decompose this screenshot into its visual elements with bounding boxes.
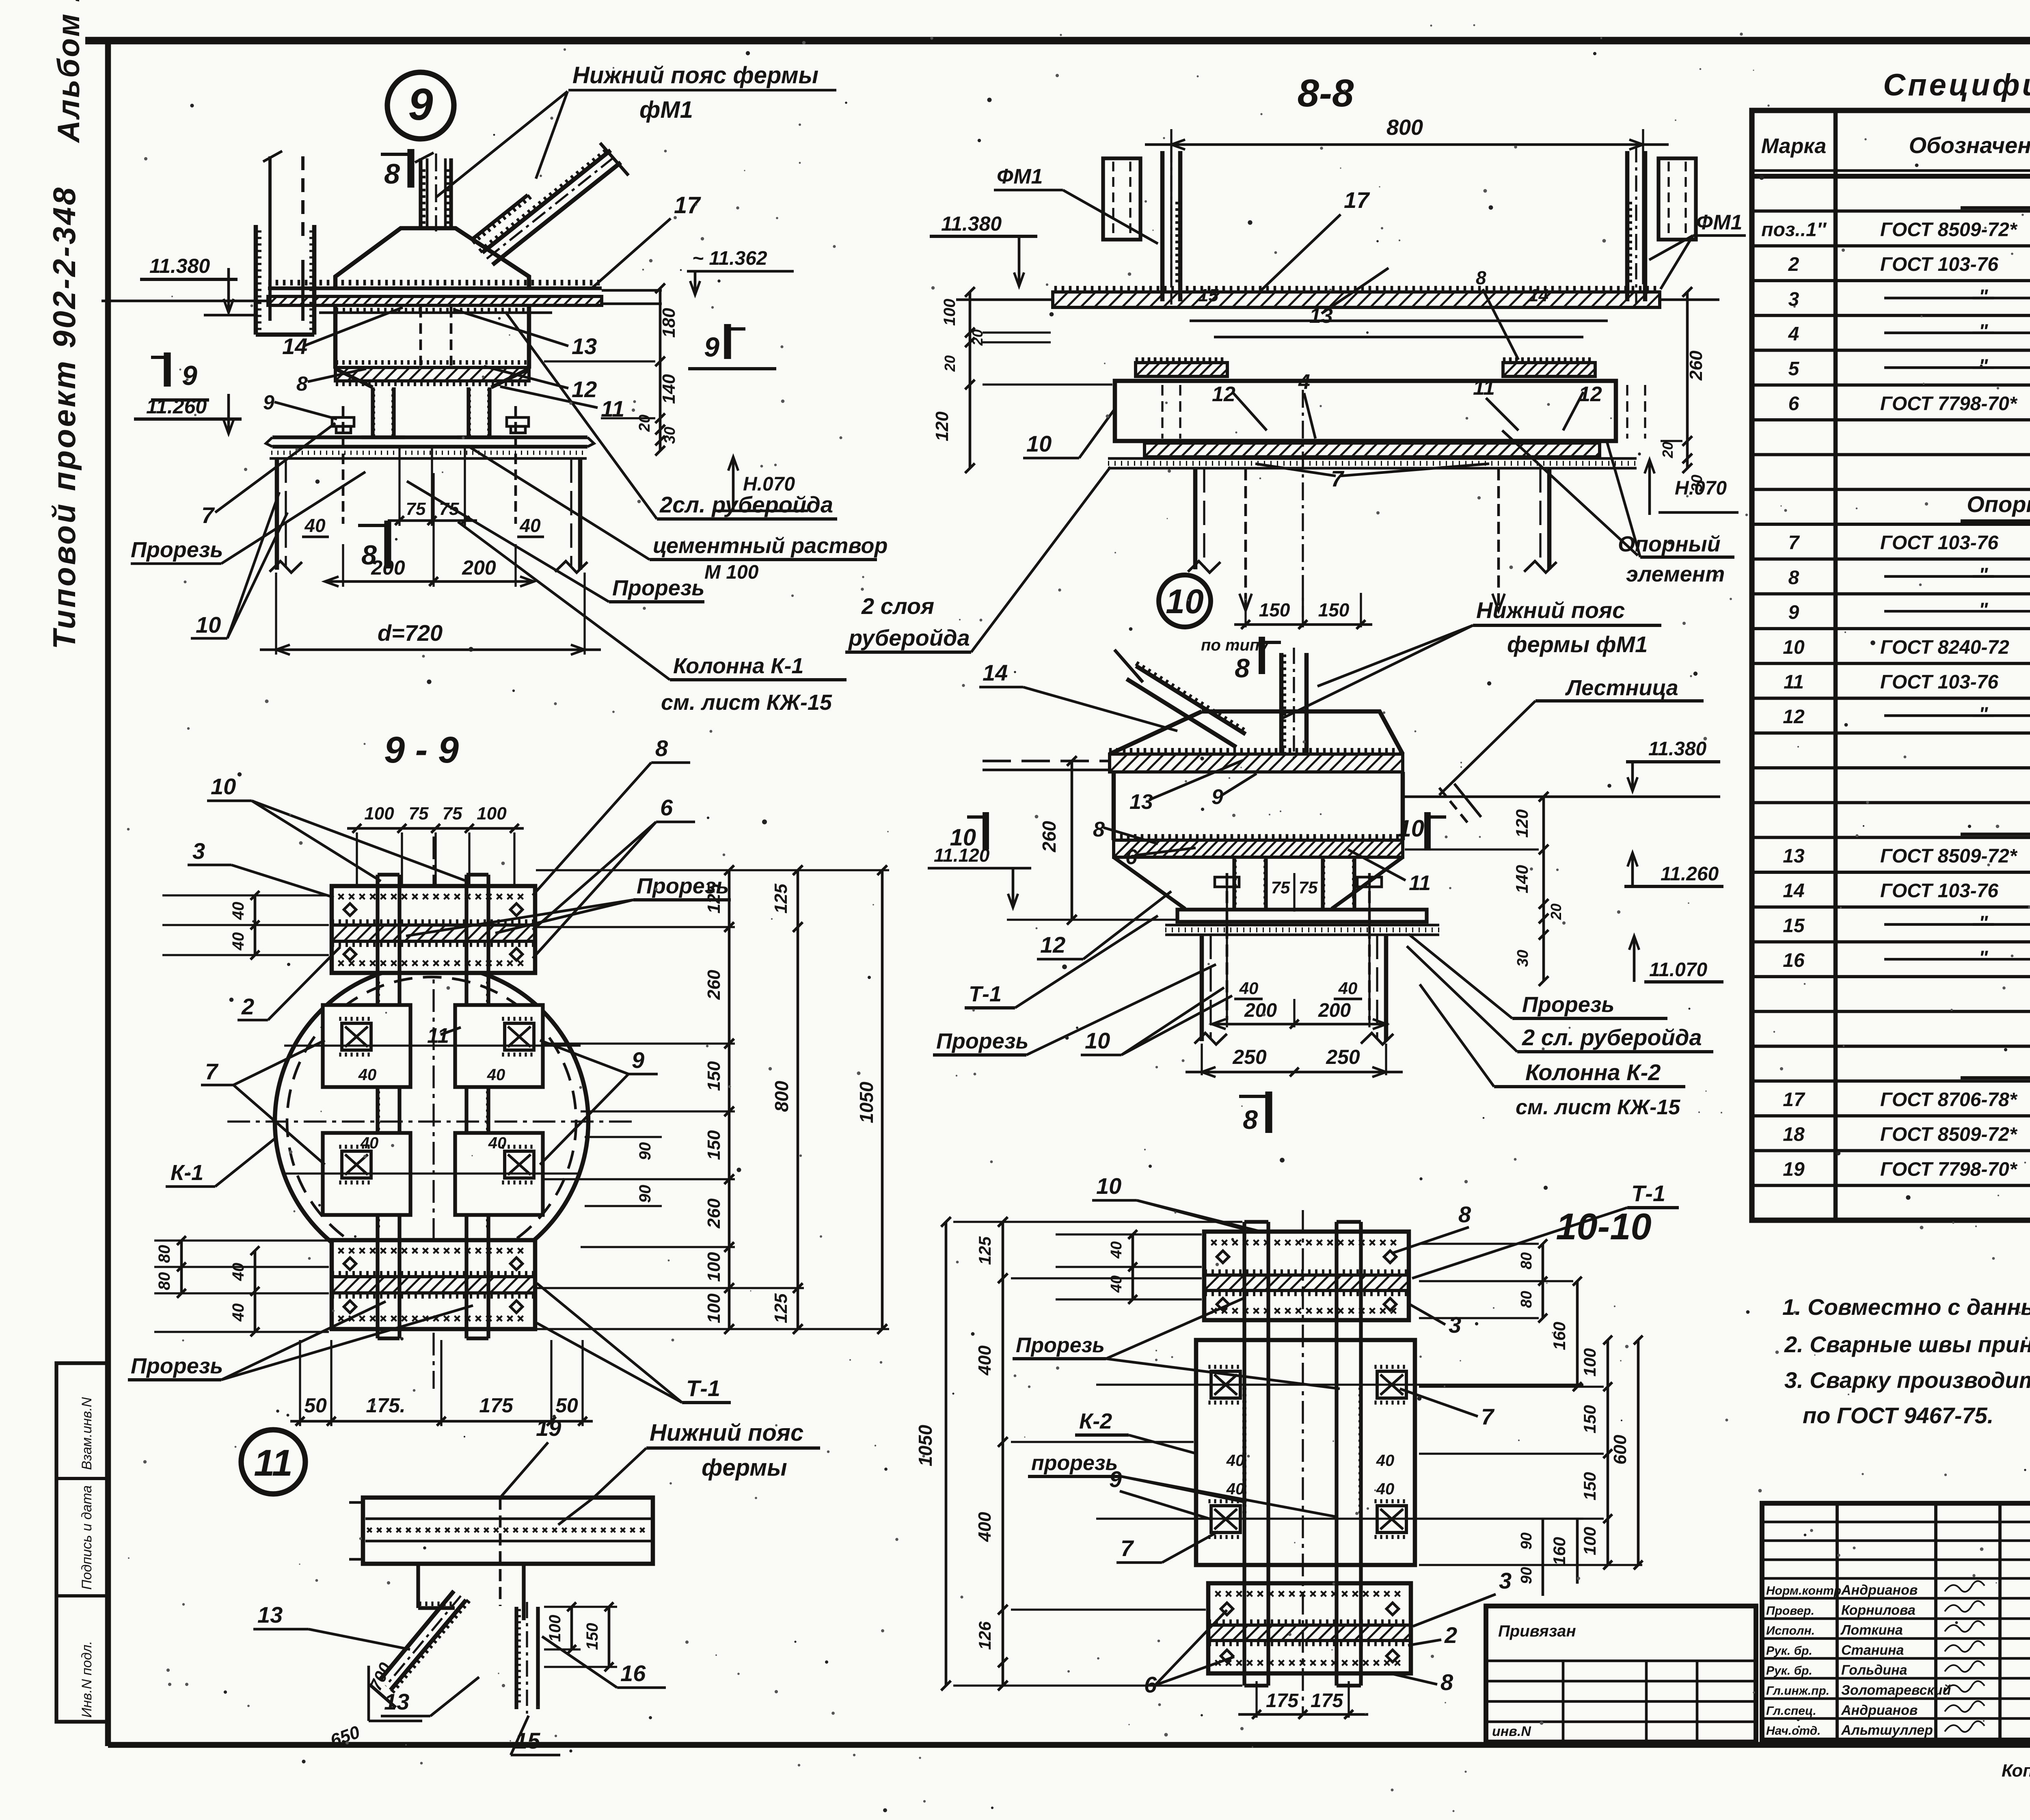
diagonal brace (11)	[391, 1600, 466, 1690]
svg-text:8: 8	[1476, 267, 1486, 288]
channel pair left 9-9	[376, 875, 379, 1338]
svg-text:150: 150	[1580, 1405, 1599, 1433]
svg-text:11: 11	[427, 1024, 449, 1048]
svg-text:8: 8	[1243, 1105, 1258, 1135]
svg-text:фМ1: фМ1	[639, 97, 693, 123]
привязан box	[1486, 1606, 1756, 1742]
40 marks top left (10-10)	[1132, 1234, 1134, 1299]
svg-text:Т-1: Т-1	[1631, 1180, 1665, 1206]
svg-text:8: 8	[296, 372, 308, 395]
svg-text:ГОСТ 103-76: ГОСТ 103-76	[1880, 672, 1998, 693]
svg-text:14: 14	[1529, 285, 1548, 305]
section flag 8 top	[407, 149, 414, 188]
svg-text:1. Совместно с данным: 1. Совместно с данным см. л.л. КЖ-19,20.	[1782, 1294, 2030, 1320]
svg-text:100: 100	[941, 299, 959, 326]
middle plates with bolt boxes	[323, 1005, 410, 1087]
svg-text:": "	[1979, 947, 1989, 968]
svg-text:80: 80	[1518, 1291, 1535, 1308]
svg-text:ГОСТ 7798-70*: ГОСТ 7798-70*	[1880, 393, 2018, 415]
scan speckles	[1700, 68, 1702, 70]
top gusset plate 9-9	[332, 886, 535, 973]
svg-text:40: 40	[229, 932, 247, 951]
svg-text:8: 8	[1458, 1202, 1471, 1227]
dim 150 150	[1244, 593, 1246, 627]
anchor bolt heads	[332, 417, 354, 426]
svg-text:40: 40	[1108, 1275, 1125, 1293]
svg-text:17: 17	[1344, 187, 1370, 213]
left tower	[1160, 151, 1165, 301]
cement mortar band	[270, 457, 587, 460]
ruberoid band (10)	[1114, 834, 1397, 839]
svg-text:9: 9	[1109, 1466, 1122, 1492]
svg-text:20: 20	[942, 355, 958, 372]
svg-text:2: 2	[1444, 1622, 1457, 1648]
dims top 100 75 75 100	[356, 832, 358, 885]
svg-text:40: 40	[519, 515, 541, 536]
dim 200 200 (10)	[1226, 885, 1228, 1027]
svg-text:75: 75	[409, 804, 429, 824]
svg-text:40: 40	[1376, 1480, 1395, 1498]
bottom band	[1145, 443, 1600, 457]
svg-text:15: 15	[1199, 285, 1218, 305]
svg-text:Опорный элемент Т-1: Опорный элемент Т-1	[1967, 491, 2030, 517]
center vertical member	[419, 158, 422, 228]
svg-text:11.380: 11.380	[1648, 738, 1707, 760]
svg-text:Гл.спец.: Гл.спец.	[1766, 1704, 1816, 1718]
svg-text:Норм.контр.: Норм.контр.	[1766, 1584, 1844, 1597]
support box	[1115, 381, 1616, 441]
svg-text:10: 10	[196, 612, 221, 638]
svg-text:250: 250	[1232, 1046, 1267, 1068]
dim d=720	[275, 573, 277, 655]
support pads	[1137, 357, 1222, 362]
svg-text:12: 12	[1212, 383, 1235, 406]
svg-text:9: 9	[1788, 602, 1799, 623]
svg-text:11: 11	[1473, 376, 1495, 400]
svg-text:": "	[1979, 703, 1989, 725]
svg-text:30: 30	[661, 427, 678, 444]
svg-text:Нижний пояс: Нижний пояс	[1476, 597, 1625, 623]
base plate	[272, 435, 587, 439]
inner deck lines	[1190, 320, 1608, 322]
svg-text:2. Сварные швы приняты: 2. Сварные швы приняты hш = 6мм	[1784, 1331, 2030, 1357]
cement band 8-8	[1108, 457, 1637, 460]
section flags 10-10 cut	[983, 812, 989, 849]
svg-text:75: 75	[1271, 878, 1290, 897]
svg-text:175: 175	[1311, 1690, 1343, 1712]
svg-text:3: 3	[192, 838, 205, 864]
svg-text:12: 12	[1783, 706, 1805, 728]
svg-text:100: 100	[364, 804, 394, 824]
svg-text:80: 80	[155, 1245, 173, 1263]
svg-text:15: 15	[1783, 915, 1805, 936]
svg-text:140: 140	[659, 374, 679, 404]
ref line right (10)	[1404, 795, 1720, 798]
svg-text:Прорезь: Прорезь	[612, 576, 704, 600]
svg-text:260: 260	[704, 1198, 724, 1229]
svg-text:90: 90	[1518, 1533, 1535, 1550]
left chain 8-8	[969, 292, 972, 468]
svg-text:200: 200	[462, 556, 496, 579]
svg-text:7: 7	[1121, 1535, 1134, 1561]
svg-text:120: 120	[1512, 809, 1531, 838]
svg-text:Привязан: Привязан	[1498, 1622, 1576, 1640]
svg-text:Прорезь: Прорезь	[637, 874, 729, 898]
svg-text:40: 40	[229, 1303, 247, 1322]
svg-text:ГОСТ 103-76: ГОСТ 103-76	[1880, 880, 1998, 902]
svg-text:40: 40	[304, 515, 326, 536]
svg-text:9 - 9: 9 - 9	[384, 729, 459, 771]
svg-text:Андрианов: Андрианов	[1841, 1582, 1918, 1598]
svg-text:ГОСТ 103-76: ГОСТ 103-76	[1880, 532, 1998, 554]
svg-text:Провер.: Провер.	[1766, 1604, 1814, 1617]
svg-text:2: 2	[241, 994, 254, 1019]
svg-text:10: 10	[1085, 1028, 1110, 1053]
centerlines 10-10	[1302, 1210, 1304, 1714]
svg-text:175: 175	[1266, 1690, 1299, 1712]
lower chord band	[337, 360, 525, 365]
svg-text:19: 19	[1783, 1159, 1805, 1180]
svg-text:20: 20	[636, 415, 653, 432]
svg-text:100: 100	[1580, 1348, 1599, 1377]
concrete column K-1	[275, 458, 279, 570]
dims bottom 50 175 175 50	[299, 1340, 301, 1426]
svg-text:40: 40	[229, 902, 247, 921]
svg-text:14: 14	[983, 660, 1008, 685]
svg-text:50: 50	[304, 1394, 327, 1417]
svg-text:Типовой проект 902-2-348: Типовой проект 902-2-348	[46, 186, 82, 649]
section flag 9 right	[724, 324, 731, 359]
svg-text:ГОСТ 8706-78*: ГОСТ 8706-78*	[1880, 1089, 2018, 1111]
svg-text:11: 11	[1784, 672, 1804, 693]
svg-text:ГОСТ 8509-72*: ГОСТ 8509-72*	[1880, 845, 2018, 867]
lower structure (10)	[1114, 857, 1185, 909]
svg-text:Подпись и дата: Подпись и дата	[79, 1485, 95, 1590]
svg-text:150: 150	[1318, 599, 1350, 620]
svg-text:d=720: d=720	[378, 620, 443, 646]
svg-text:Нижний пояс: Нижний пояс	[650, 1420, 803, 1446]
svg-text:Копир. Лаврухина: Копир. Лаврухина	[2002, 1761, 2030, 1781]
svg-text:Прорезь: Прорезь	[1522, 992, 1614, 1017]
svg-text:Прорезь: Прорезь	[131, 1354, 223, 1378]
gusset body top	[335, 228, 529, 288]
svg-text:100: 100	[1580, 1527, 1599, 1555]
bolts (10)	[1226, 873, 1229, 1020]
svg-text:руберойда: руберойда	[848, 625, 970, 651]
svg-text:11: 11	[601, 396, 624, 421]
svg-text:3. Сварку производить эле: 3. Сварку производить электродами Э42А	[1784, 1367, 2030, 1393]
dim 250 250 (10)	[1201, 1044, 1203, 1075]
dim 75 75	[398, 447, 400, 526]
svg-text:1050: 1050	[856, 1081, 877, 1123]
svg-text:6: 6	[660, 795, 673, 820]
svg-text:8: 8	[1093, 818, 1105, 841]
beam (11)	[363, 1498, 653, 1564]
diagonal member	[482, 150, 611, 253]
svg-text:К-2: К-2	[1079, 1409, 1112, 1433]
channel pair right 9-9	[464, 875, 468, 1338]
body box (10)	[1112, 772, 1116, 840]
svg-text:8-8: 8-8	[1298, 71, 1354, 115]
svg-text:126: 126	[975, 1621, 994, 1650]
margin stamp column	[56, 1363, 108, 1722]
svg-text:6: 6	[1788, 393, 1799, 415]
svg-text:200: 200	[371, 556, 405, 579]
svg-text:50: 50	[555, 1394, 578, 1417]
svg-text:12: 12	[572, 376, 597, 402]
svg-text:30: 30	[1514, 950, 1531, 967]
svg-text:150: 150	[1259, 599, 1290, 620]
detail 11 bubble	[241, 1430, 305, 1494]
svg-text:10: 10	[1096, 1173, 1121, 1199]
svg-text:80: 80	[1518, 1252, 1535, 1269]
right tower	[1625, 151, 1630, 301]
svg-text:17: 17	[1783, 1089, 1805, 1111]
svg-text:400: 400	[975, 1345, 995, 1376]
concrete column 8-8	[1193, 468, 1198, 569]
spec table grid	[1752, 110, 2030, 1220]
svg-text:40: 40	[358, 1066, 377, 1084]
svg-text:100: 100	[477, 804, 507, 824]
svg-text:Лоткина: Лоткина	[1840, 1623, 1903, 1638]
svg-text:Колонна К-1: Колонна К-1	[673, 654, 803, 678]
svg-text:11: 11	[1409, 871, 1431, 895]
svg-text:260: 260	[1039, 821, 1060, 852]
svg-text:9: 9	[1212, 785, 1223, 809]
left chains 10-10	[945, 1222, 948, 1686]
svg-text:17: 17	[674, 192, 701, 218]
svg-text:прорезь: прорезь	[1031, 1451, 1118, 1475]
right chains 10-10	[1542, 1244, 1544, 1318]
svg-text:140: 140	[1512, 865, 1531, 893]
title block signature table	[1762, 1503, 2030, 1740]
svg-text:16: 16	[1783, 950, 1805, 971]
base plate (10)	[1177, 910, 1427, 922]
bolts 8-8	[1244, 468, 1247, 607]
svg-text:180: 180	[659, 308, 679, 338]
svg-text:Инв.N подл.: Инв.N подл.	[79, 1641, 95, 1718]
svg-text:100: 100	[546, 1615, 564, 1642]
leader to truss chord	[436, 91, 568, 197]
left chain (10)	[1071, 761, 1073, 920]
svg-text:Станина: Станина	[1841, 1643, 1904, 1658]
svg-text:14: 14	[282, 333, 307, 359]
extension lines 9-9 right	[536, 869, 889, 871]
svg-text:7: 7	[1481, 1404, 1495, 1429]
svg-text:8: 8	[384, 158, 400, 190]
svg-text:19: 19	[536, 1415, 561, 1441]
svg-text:8: 8	[655, 735, 668, 761]
svg-text:260: 260	[704, 970, 724, 1000]
svg-text:Спецификация ПМ-1: Спецификация ПМ-1	[1883, 68, 2030, 102]
svg-text:260: 260	[1686, 350, 1706, 381]
svg-text:2 сл. руберойда: 2 сл. руберойда	[1522, 1025, 1702, 1050]
svg-text:7: 7	[1331, 466, 1345, 491]
svg-text:Колонна К-2: Колонна К-2	[1525, 1059, 1661, 1085]
svg-text:Обозначение: Обозначение	[1909, 132, 2030, 158]
svg-text:Золотаревский: Золотаревский	[1841, 1683, 1951, 1698]
svg-text:13: 13	[1129, 790, 1153, 814]
svg-text:40: 40	[360, 1134, 379, 1152]
svg-text:40: 40	[487, 1066, 505, 1084]
centerlines 9-9	[227, 1120, 633, 1122]
svg-text:20: 20	[1548, 904, 1564, 920]
svg-text:ФМ1: ФМ1	[1696, 211, 1742, 234]
svg-text:40: 40	[1239, 979, 1259, 998]
svg-text:150: 150	[704, 1130, 724, 1160]
svg-text:16: 16	[620, 1660, 646, 1686]
svg-text:цементный раствор: цементный раствор	[653, 534, 888, 558]
svg-text:800: 800	[1386, 115, 1423, 140]
svg-text:поз..1″: поз..1″	[1761, 219, 1827, 240]
svg-text:150: 150	[704, 1061, 724, 1091]
svg-text:13: 13	[384, 1689, 409, 1714]
svg-text:ГОСТ 103-76: ГОСТ 103-76	[1880, 254, 1998, 275]
detail 9 bubble	[387, 72, 454, 139]
diagonal member (10)	[1136, 666, 1246, 734]
channels 10-10	[1242, 1222, 1246, 1686]
svg-text:4: 4	[1298, 370, 1310, 394]
svg-text:ФМ1: ФМ1	[997, 165, 1043, 188]
right dim chain 180 140 20 30	[659, 288, 662, 451]
middle plate 10-10	[1196, 1340, 1415, 1565]
column circle K-1	[275, 965, 588, 1278]
svg-text:10: 10	[211, 774, 236, 799]
svg-text:11.380: 11.380	[149, 255, 210, 277]
svg-text:800: 800	[771, 1081, 792, 1112]
svg-text:": "	[1979, 564, 1989, 586]
svg-text:Рук. бр.: Рук. бр.	[1766, 1644, 1812, 1658]
right dim chains 9-9	[728, 870, 731, 1329]
svg-text:см. лист КЖ-15: см. лист КЖ-15	[1516, 1096, 1680, 1119]
svg-text:инв.N: инв.N	[1492, 1724, 1531, 1739]
svg-text:9: 9	[263, 391, 274, 414]
svg-text:250: 250	[1326, 1046, 1360, 1068]
svg-text:ГОСТ 8509-72*: ГОСТ 8509-72*	[1880, 219, 2018, 240]
horizontal centerlines of plate rows	[284, 1044, 581, 1046]
svg-text:100: 100	[704, 1252, 724, 1282]
detail 10 bubble	[1159, 575, 1211, 627]
svg-text:Андрианов: Андрианов	[1841, 1703, 1918, 1718]
svg-text:100: 100	[704, 1293, 724, 1323]
svg-text:Альбом 1: Альбом 1	[52, 0, 86, 143]
svg-text:": "	[1979, 321, 1989, 342]
svg-text:Лестница: Лестница	[1565, 676, 1678, 700]
top plate 10-10	[1204, 1232, 1409, 1320]
upper chord deck band	[270, 280, 598, 285]
svg-text:Т-1: Т-1	[969, 982, 1002, 1006]
svg-text:13: 13	[572, 333, 597, 359]
svg-text:7: 7	[1788, 532, 1800, 554]
svg-text:40: 40	[1376, 1452, 1395, 1470]
left stub U-channel	[254, 225, 258, 335]
right chain (10)	[1542, 797, 1545, 981]
svg-text:200: 200	[1318, 1000, 1351, 1021]
gusset body mid	[333, 305, 338, 369]
svg-text:Рук. бр.: Рук. бр.	[1766, 1664, 1812, 1677]
svg-text:": "	[1979, 286, 1989, 307]
svg-text:9: 9	[632, 1047, 644, 1073]
svg-text:8: 8	[1235, 653, 1250, 683]
svg-text:7: 7	[201, 502, 215, 528]
svg-text:9: 9	[408, 80, 433, 130]
svg-text:120: 120	[932, 411, 952, 441]
section flag 9 left	[164, 352, 171, 387]
svg-text:11: 11	[254, 1442, 293, 1484]
bottom gusset plate 9-9	[332, 1240, 535, 1329]
svg-text:Корнилова: Корнилова	[1841, 1602, 1916, 1618]
svg-text:1050: 1050	[915, 1424, 936, 1466]
vertical member (10)	[1279, 653, 1284, 755]
svg-text:6: 6	[1125, 845, 1138, 869]
svg-text:см. лист КЖ-15: см. лист КЖ-15	[661, 690, 832, 715]
svg-text:10: 10	[1398, 815, 1424, 842]
svg-text:фермы: фермы	[702, 1455, 787, 1481]
chord band (10)	[1110, 748, 1400, 753]
svg-text:Н.070: Н.070	[1675, 478, 1727, 499]
svg-text:11.380: 11.380	[941, 212, 1002, 235]
body (10)	[1202, 711, 1403, 754]
svg-text:Гольдина: Гольдина	[1841, 1662, 1907, 1678]
svg-text:40: 40	[1338, 979, 1358, 998]
svg-text:400: 400	[975, 1512, 995, 1542]
svg-text:75: 75	[1299, 878, 1318, 897]
svg-text:7: 7	[205, 1059, 219, 1084]
svg-text:150: 150	[1580, 1472, 1599, 1500]
svg-text:14: 14	[1783, 880, 1804, 902]
bottom plate 10-10	[1208, 1583, 1411, 1673]
svg-text:200: 200	[1244, 1000, 1277, 1021]
gusset (11)	[416, 1564, 420, 1608]
svg-text:125: 125	[771, 1293, 791, 1323]
svg-text:18: 18	[1783, 1124, 1805, 1146]
svg-text:40: 40	[229, 1263, 247, 1282]
dim 800 top	[1170, 129, 1172, 284]
svg-text:40: 40	[1226, 1452, 1245, 1470]
svg-text:": "	[1979, 912, 1989, 934]
svg-text:600: 600	[1610, 1435, 1630, 1465]
svg-text:175.: 175.	[366, 1394, 405, 1417]
right chain 8-8	[1686, 292, 1689, 468]
slope triangle 700 650 (11)	[367, 1666, 370, 1721]
svg-text:175: 175	[479, 1394, 514, 1417]
svg-text:Гл.инж.пр.: Гл.инж.пр.	[1766, 1684, 1829, 1698]
svg-text:Нижний пояс фермы: Нижний пояс фермы	[572, 62, 818, 89]
svg-text:~ 11.362: ~ 11.362	[692, 248, 767, 269]
svg-text:80: 80	[155, 1272, 173, 1290]
svg-text:90: 90	[1518, 1567, 1535, 1584]
svg-text:К-1: К-1	[171, 1161, 203, 1185]
svg-text:11.260: 11.260	[1661, 863, 1719, 885]
svg-text:2: 2	[1788, 254, 1799, 275]
svg-text:12: 12	[1040, 932, 1065, 958]
svg-text:9: 9	[182, 360, 197, 391]
svg-text:10: 10	[950, 824, 976, 851]
vertical element (11)	[514, 1607, 518, 1709]
svg-text:Нач.отд.: Нач.отд.	[1766, 1724, 1821, 1738]
svg-text:9: 9	[704, 332, 719, 363]
ladder marks (10)	[1439, 788, 1471, 826]
svg-text:фермы фМ1: фермы фМ1	[1507, 631, 1648, 657]
svg-text:ГОСТ 8240-72: ГОСТ 8240-72	[1880, 637, 2009, 658]
svg-text:ГОСТ 7798-70*: ГОСТ 7798-70*	[1880, 1159, 2018, 1180]
svg-text:90: 90	[636, 1185, 654, 1203]
svg-text:8: 8	[1788, 567, 1799, 588]
svg-text:Прорезь: Прорезь	[936, 1029, 1028, 1053]
svg-text:75: 75	[443, 804, 462, 824]
svg-text:5: 5	[1788, 358, 1800, 380]
svg-text:11.070: 11.070	[1649, 959, 1708, 981]
